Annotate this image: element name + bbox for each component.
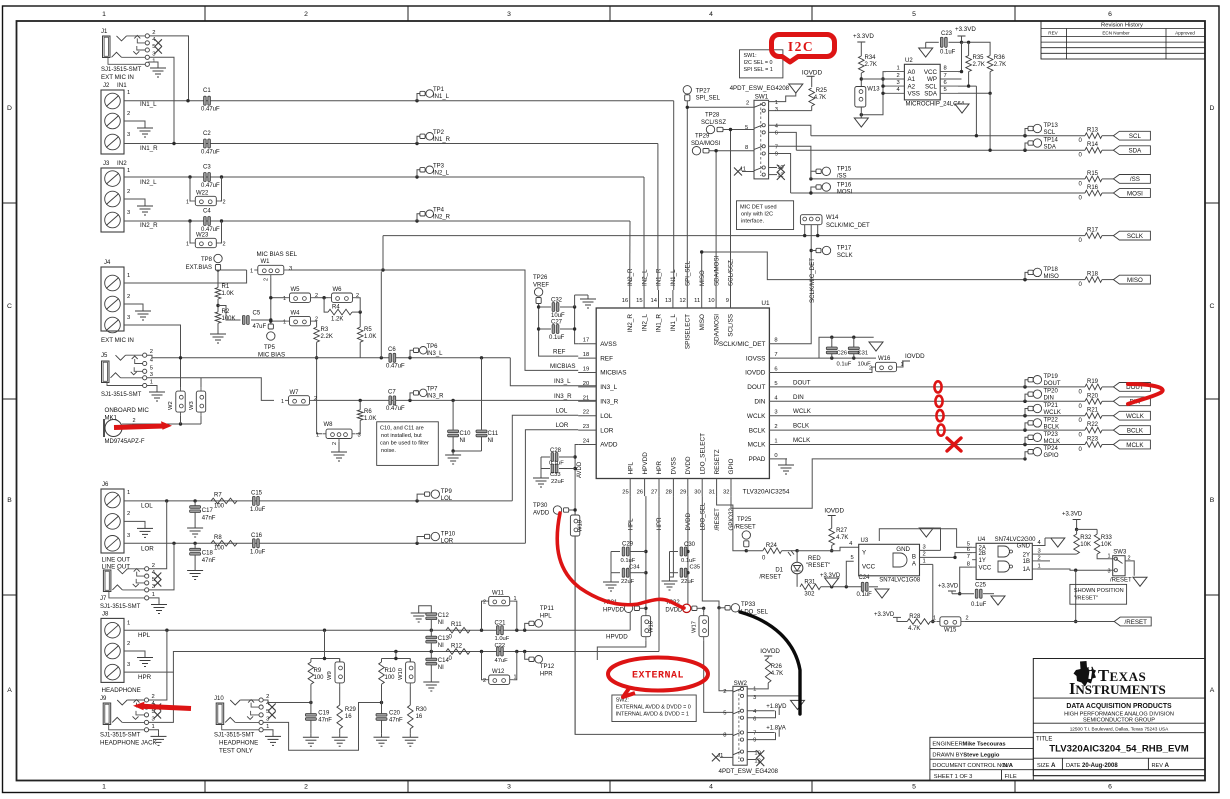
annotation red circle DOUT (934, 381, 941, 392)
svg-text:14: 14 (651, 298, 658, 304)
svg-text:1: 1 (127, 490, 130, 496)
wire W5-W6 (314, 296, 328, 299)
wire TP29 to SW1 pin8 (709, 149, 754, 152)
svg-text:LOL: LOL (556, 408, 568, 415)
power IOVDD R27 (824, 508, 848, 553)
svg-text:C5: C5 (253, 311, 261, 317)
svg-text:2: 2 (127, 641, 130, 647)
wire SW2 pins 4 6 +1.8VD (747, 704, 787, 718)
svg-text:A: A (1165, 762, 1170, 769)
svg-text:W5: W5 (291, 287, 301, 293)
svg-text:HEADPHONE: HEADPHONE (219, 740, 258, 747)
wire +3.3VD rail to R35 R36 (962, 41, 991, 56)
svg-text:MISO: MISO (1127, 277, 1143, 284)
jumper W18 (641, 612, 654, 640)
resistor R2 (215, 299, 235, 323)
svg-text:C35: C35 (690, 565, 701, 571)
wire IN2_L (124, 175, 644, 178)
svg-text:47uF: 47uF (495, 658, 509, 664)
svg-text:47nF: 47nF (318, 718, 332, 724)
svg-text:A1: A1 (908, 76, 916, 83)
svg-text:W6: W6 (333, 287, 343, 293)
wire AVDD to SW2 pin8 (575, 540, 733, 735)
wire IN1_R (124, 142, 658, 145)
svg-text:R28: R28 (909, 614, 921, 620)
ground C28 C33 (533, 469, 549, 488)
svg-text:C34: C34 (629, 565, 640, 571)
wire W1 pin3 to MICBIAS rail (287, 268, 578, 370)
wire IOVSS (787, 356, 876, 359)
svg-text:IN1_L: IN1_L (670, 314, 677, 331)
svg-text:22: 22 (583, 410, 589, 416)
svg-text:TP15: TP15 (837, 167, 852, 173)
net label REF (553, 349, 566, 356)
svg-text:SN74LVC1G08: SN74LVC1G08 (879, 578, 921, 584)
svg-text:2: 2 (266, 694, 269, 700)
wire /SS (809, 177, 1085, 180)
svg-text:C19: C19 (318, 711, 330, 717)
svg-text:47nF: 47nF (202, 516, 216, 522)
resistor R25 (809, 88, 828, 111)
wire U3 pin2 to U4 (920, 551, 973, 559)
svg-text:J8: J8 (102, 612, 109, 618)
svg-text:EXTERNAL: EXTERNAL (632, 671, 684, 682)
svg-text:2: 2 (1038, 555, 1041, 561)
wire R3 to W8 (315, 342, 322, 434)
svg-text:4: 4 (709, 783, 713, 790)
wire W2 top to IN3_L (179, 356, 182, 388)
svg-text:4.7K: 4.7K (771, 671, 783, 677)
svg-text:TP17: TP17 (837, 246, 852, 252)
svg-text:MISO: MISO (699, 314, 706, 330)
annotation red swoosh DOUT DIN flags (1128, 384, 1163, 404)
power IOVDD SW1 (769, 70, 823, 102)
svg-text:+3.3VD: +3.3VD (955, 26, 976, 33)
svg-text:C1: C1 (203, 88, 211, 94)
svg-text:noise.: noise. (381, 448, 396, 454)
svg-text:2: 2 (127, 511, 130, 517)
svg-text:TLV320AIC3254: TLV320AIC3254 (743, 489, 790, 496)
svg-text:100: 100 (385, 675, 396, 681)
svg-text:TEST ONLY: TEST ONLY (219, 748, 253, 755)
svg-text:C31: C31 (858, 351, 869, 357)
svg-text:LDO_SEL: LDO_SEL (699, 502, 706, 530)
resistor R19 (1079, 379, 1114, 396)
svg-text:C22: C22 (495, 643, 506, 649)
svg-text:16: 16 (416, 714, 423, 720)
svg-text:IN2_R: IN2_R (627, 268, 634, 286)
svg-text:2: 2 (332, 442, 338, 445)
jumper W4 (283, 311, 318, 326)
svg-text:+3.3VD: +3.3VD (938, 584, 959, 590)
svg-text:3: 3 (152, 716, 155, 722)
connector J7 jack (100, 563, 161, 610)
svg-text:5: 5 (152, 577, 155, 583)
svg-text:LOL: LOL (441, 496, 453, 502)
svg-text:NI: NI (438, 643, 444, 649)
svg-text:R14: R14 (1087, 142, 1099, 148)
svg-text:2: 2 (483, 600, 486, 606)
jumper W17 (692, 608, 709, 640)
resistor R35 (966, 55, 985, 86)
ground J2 pin2 (124, 121, 153, 137)
net label MICBIAS (550, 363, 575, 370)
svg-text:2: 2 (304, 11, 308, 18)
wire J5 pin3 to W7 (147, 378, 274, 401)
wire SCLK/MIC_DET horizontal (383, 235, 1085, 237)
svg-text:3: 3 (152, 51, 155, 57)
svg-text:47uF: 47uF (253, 324, 267, 330)
wire HPR (124, 650, 659, 672)
svg-text:1: 1 (1107, 554, 1110, 560)
wire VREF rail (537, 304, 578, 357)
wire W2 bottom (180, 416, 182, 424)
svg-text:2.7K: 2.7K (973, 62, 985, 68)
svg-text:2: 2 (923, 551, 926, 557)
note box SW1 settings (740, 50, 783, 78)
TI logo (1069, 661, 1166, 698)
svg-text:WCLK: WCLK (1044, 410, 1061, 416)
U1 top pins 16-9 (622, 290, 735, 349)
svg-text:2.2K: 2.2K (321, 334, 333, 340)
capacitor C18 (190, 543, 216, 566)
svg-text:R11: R11 (451, 622, 462, 628)
wire W17 to SW2 pin5 (704, 640, 733, 712)
svg-text:IN1: IN1 (117, 82, 127, 89)
svg-text:8: 8 (774, 338, 777, 344)
svg-text:7: 7 (967, 554, 970, 560)
ground R2 (210, 323, 226, 343)
net label IN3_R pin21 (554, 393, 572, 400)
wire TP28 to SW1 pin5 (723, 128, 754, 131)
capacitor C20 (376, 703, 403, 734)
capacitor C13 (426, 630, 450, 651)
svg-text:VCC: VCC (979, 565, 992, 571)
ground J7 (149, 598, 167, 614)
svg-text:IN3_R: IN3_R (554, 393, 572, 400)
svg-text:1: 1 (281, 399, 284, 405)
svg-text:B: B (1210, 497, 1215, 504)
svg-text:2: 2 (127, 294, 130, 300)
capacitor C17 (190, 501, 216, 524)
svg-text:SCLK: SCLK (837, 253, 853, 259)
capacitor C24 (857, 575, 879, 598)
IC U4 SN74LVC2G00 (967, 537, 1042, 580)
svg-text:4PDT_ESW_EG4208: 4PDT_ESW_EG4208 (719, 768, 779, 775)
svg-text:DATA ACQUISITION PRODUCTS: DATA ACQUISITION PRODUCTS (1066, 703, 1172, 710)
svg-text:SDA: SDA (1044, 145, 1056, 151)
flag DOUT (1113, 383, 1150, 392)
annotation black curve TP33 (740, 612, 800, 714)
svg-text:MIC DET used: MIC DET used (740, 205, 777, 211)
svg-text:32: 32 (723, 490, 729, 496)
net labels below U1 (627, 502, 735, 530)
svg-text:MCLK: MCLK (1126, 442, 1144, 449)
svg-text:2: 2 (304, 783, 308, 790)
svg-text:4PDT_ESW_EG4208: 4PDT_ESW_EG4208 (730, 85, 790, 92)
power +3.3VD R32 R33 (1062, 512, 1097, 532)
svg-text:GPIO: GPIO (1044, 453, 1059, 459)
svg-text:AVSS: AVSS (600, 341, 617, 348)
power IOVDD R26 (760, 648, 783, 683)
svg-text:IOVDD: IOVDD (760, 648, 780, 655)
svg-text:IN3_L: IN3_L (554, 378, 571, 385)
svg-text:W4: W4 (291, 311, 301, 317)
svg-text:5: 5 (850, 555, 853, 561)
svg-text:1: 1 (102, 783, 106, 790)
wire HPR up to pin27 (658, 496, 660, 651)
wire J10 pin3 loop to R10 C20 (263, 701, 383, 750)
svg-text:TP7: TP7 (427, 387, 439, 393)
svg-text:SCL: SCL (1044, 130, 1056, 136)
svg-text:R17: R17 (1087, 228, 1099, 234)
svg-text:1.2K: 1.2K (331, 317, 343, 323)
svg-text:VSS: VSS (908, 91, 920, 98)
ground J6 pin2 (124, 521, 153, 537)
svg-text:HPR: HPR (656, 517, 663, 531)
wire SW1 pin3 R25 (769, 110, 812, 112)
wire W15 to /RESET flag (964, 621, 1114, 623)
testpoint TP17 SCLK (811, 246, 852, 260)
svg-text:LINE OUT: LINE OUT (102, 563, 131, 570)
svg-text:HPL: HPL (627, 462, 634, 475)
power IOVDD W16 (902, 353, 925, 361)
jumper W23 (186, 221, 226, 248)
U1 bottom pins 25-32 (622, 433, 735, 496)
svg-text:IN1_L: IN1_L (433, 94, 450, 100)
svg-text:TP21: TP21 (1044, 403, 1059, 409)
wire pin9 SCL/SSZ up (730, 130, 732, 291)
svg-text:+3.3VD: +3.3VD (1062, 512, 1083, 518)
svg-text:R25: R25 (816, 88, 828, 94)
svg-text:5: 5 (723, 711, 726, 717)
svg-text:29: 29 (680, 490, 686, 496)
flag BCLK (1113, 426, 1150, 435)
capacitor C30 (670, 542, 697, 564)
capacitor C21 (495, 621, 510, 643)
wire RESETZ to R24 node (717, 496, 748, 552)
svg-text:J2: J2 (103, 83, 110, 89)
svg-text:U3: U3 (861, 538, 869, 544)
annotation EXTERNAL bubble (608, 658, 708, 698)
resistor R30 (408, 686, 428, 728)
switch SW1 4PDT (730, 85, 790, 179)
svg-text:0.1uF: 0.1uF (549, 461, 564, 467)
wire C29 C34 left rail (610, 552, 612, 573)
resistor R13 (1079, 128, 1114, 145)
svg-text:3: 3 (923, 544, 926, 550)
jumper W22 (186, 177, 226, 206)
svg-text:LOL: LOL (600, 413, 613, 420)
svg-text:R21: R21 (1087, 408, 1099, 414)
wire J9 pin3 up to HPR (149, 672, 174, 722)
svg-text:ECN Number: ECN Number (1102, 31, 1130, 36)
svg-text:REV: REV (1048, 31, 1058, 36)
svg-text:0.1uF: 0.1uF (621, 558, 636, 564)
svg-text:WCLK: WCLK (747, 413, 766, 420)
svg-text:TP22: TP22 (1044, 417, 1059, 423)
svg-text:C6: C6 (388, 347, 396, 353)
svg-text:2: 2 (966, 616, 969, 622)
resistor R31 (800, 579, 863, 597)
flag MCLK (1113, 440, 1150, 449)
svg-text:R23: R23 (1087, 437, 1099, 443)
revision history table (1041, 21, 1205, 59)
svg-text:1: 1 (316, 433, 319, 439)
svg-text:0.1uF: 0.1uF (857, 592, 873, 598)
svg-text:TP11: TP11 (540, 606, 555, 612)
svg-text:BCLK: BCLK (1127, 427, 1144, 434)
ground R30 (402, 729, 418, 747)
svg-text:C27: C27 (551, 320, 563, 326)
svg-text:R5: R5 (364, 327, 372, 333)
svg-text:7: 7 (774, 352, 777, 358)
ground J8 pin2 (124, 651, 153, 667)
wire AVDD vertical (573, 445, 578, 735)
wire W4 pin1 (269, 319, 286, 322)
svg-text:R16: R16 (1087, 185, 1099, 191)
capacitor C10 (448, 400, 472, 451)
svg-text:0: 0 (774, 453, 777, 459)
label ONBOARD MIC MK1 (105, 407, 150, 422)
svg-text:HPVDD: HPVDD (606, 634, 628, 641)
svg-text:5: 5 (912, 11, 916, 18)
svg-text:A0: A0 (908, 69, 916, 76)
ground arrow SW3 (1133, 577, 1147, 586)
svg-text:R31: R31 (804, 579, 816, 585)
svg-text:TP26: TP26 (533, 275, 548, 281)
svg-text:SW3: SW3 (1113, 550, 1127, 556)
svg-text:J4: J4 (104, 260, 111, 266)
testpoint TP7 (410, 387, 444, 401)
svg-text:C12: C12 (438, 613, 450, 619)
wire MIC DET branch (382, 236, 384, 270)
svg-text:TP30: TP30 (533, 503, 548, 509)
svg-text:0.1uF: 0.1uF (837, 362, 852, 368)
svg-text:BCLK: BCLK (1044, 424, 1060, 430)
svg-text:C25: C25 (975, 583, 987, 589)
svg-text:TP1: TP1 (433, 87, 445, 93)
ground arrow SW2 pin3 (791, 696, 805, 710)
svg-text:B: B (7, 497, 12, 504)
svg-text:HEADPHONE: HEADPHONE (102, 687, 141, 694)
wire pin11 MISO up (701, 252, 703, 290)
ground J4 pin2 (124, 304, 151, 320)
net labels above U1 (627, 255, 735, 286)
svg-text:5: 5 (944, 87, 947, 93)
svg-text:IN2_L: IN2_L (641, 314, 648, 331)
resistor R17 (1079, 228, 1114, 245)
connector J1 headphone jack (101, 29, 162, 81)
wire W3 bottom (200, 416, 202, 424)
svg-text:6: 6 (967, 547, 970, 553)
svg-text:only with I2C: only with I2C (741, 212, 773, 218)
wire J10 pin2 to R9 C19 (263, 700, 312, 704)
svg-text:19: 19 (583, 367, 589, 373)
svg-text:C28: C28 (550, 448, 562, 454)
flag WCLK (1113, 411, 1150, 420)
svg-text:18: 18 (583, 352, 589, 358)
svg-text:DOUT: DOUT (793, 379, 811, 386)
no-connect SW1 pin10 (769, 165, 785, 173)
svg-text:interface.: interface. (741, 219, 764, 225)
ground J3 pin2 (124, 199, 153, 215)
svg-text:SCL/SSZ: SCL/SSZ (701, 120, 726, 126)
label MIC BIAS SEL (257, 251, 298, 258)
net label LOR pin23 (556, 422, 569, 429)
svg-text:1B: 1B (1023, 559, 1030, 565)
wire SW1 pin9 to MOSI (769, 154, 791, 194)
resistor R21 (1079, 408, 1114, 425)
svg-text:2.7K: 2.7K (994, 62, 1006, 68)
svg-text:3: 3 (127, 315, 130, 321)
svg-text:IN3_L: IN3_L (427, 351, 444, 357)
no-connect SW2 pin10 (747, 750, 764, 758)
svg-text:302: 302 (804, 592, 815, 598)
svg-text:SJ1-3515-SMT: SJ1-3515-SMT (101, 67, 142, 73)
jumper W5 (283, 287, 318, 302)
svg-text:R29: R29 (345, 707, 357, 713)
svg-text:2.7K: 2.7K (865, 62, 877, 68)
svg-text:W9: W9 (327, 671, 333, 680)
svg-text:31: 31 (709, 490, 715, 496)
svg-text:11: 11 (694, 298, 700, 304)
jumper W8 (316, 422, 361, 445)
testpoint TP23 (1023, 432, 1060, 446)
wire TP27 to SW1 pin2 (686, 101, 754, 109)
svg-text:3: 3 (127, 132, 130, 138)
svg-text:SCLK/MIC_DET: SCLK/MIC_DET (719, 341, 766, 348)
no-connect SW2 pin11 (712, 753, 733, 761)
svg-text:27: 27 (651, 490, 657, 496)
svg-text:NI: NI (438, 665, 444, 671)
testpoint TP2 (417, 130, 451, 144)
capacitor C35 (670, 565, 701, 586)
svg-text:C2: C2 (203, 131, 211, 137)
svg-text:R8: R8 (214, 535, 222, 541)
ground J9 (149, 730, 167, 746)
testpoint TP14 SDA (1023, 138, 1058, 152)
wire SCL (811, 134, 1085, 137)
capacitor C3 (201, 165, 220, 189)
svg-text:MIC BIAS SEL: MIC BIAS SEL (257, 251, 298, 258)
svg-text:10uF: 10uF (551, 313, 565, 319)
testpoint TP11 HPL (525, 606, 555, 630)
connector J10 jack (214, 694, 276, 755)
svg-text:2: 2 (150, 349, 153, 355)
svg-text:0.47uF: 0.47uF (201, 107, 220, 113)
svg-text:SCL: SCL (1129, 133, 1142, 140)
svg-text:W22: W22 (196, 191, 209, 197)
wire SW1 pin7 to /SS (769, 146, 811, 179)
testpoint TP8 EXT.BIAS (186, 254, 223, 271)
svg-text:HPVDD: HPVDD (603, 608, 625, 614)
svg-text:/SS: /SS (1130, 176, 1140, 183)
wire LDO_SEL vertical (702, 496, 720, 609)
svg-text:2: 2 (1128, 556, 1131, 562)
svg-text:C: C (1210, 303, 1215, 310)
svg-text:+3.3VD: +3.3VD (874, 612, 895, 618)
svg-text:100: 100 (214, 546, 225, 552)
connector J8 HEADPHONE (101, 612, 152, 695)
capacitor C29 (611, 542, 646, 565)
annotation red curve TP30 to TP32 (557, 513, 684, 608)
svg-text:IN2_L: IN2_L (641, 269, 648, 286)
svg-text:HPL: HPL (138, 632, 151, 639)
svg-text:28: 28 (665, 490, 671, 496)
svg-text:1: 1 (775, 100, 778, 106)
svg-text:R32: R32 (1080, 535, 1092, 541)
